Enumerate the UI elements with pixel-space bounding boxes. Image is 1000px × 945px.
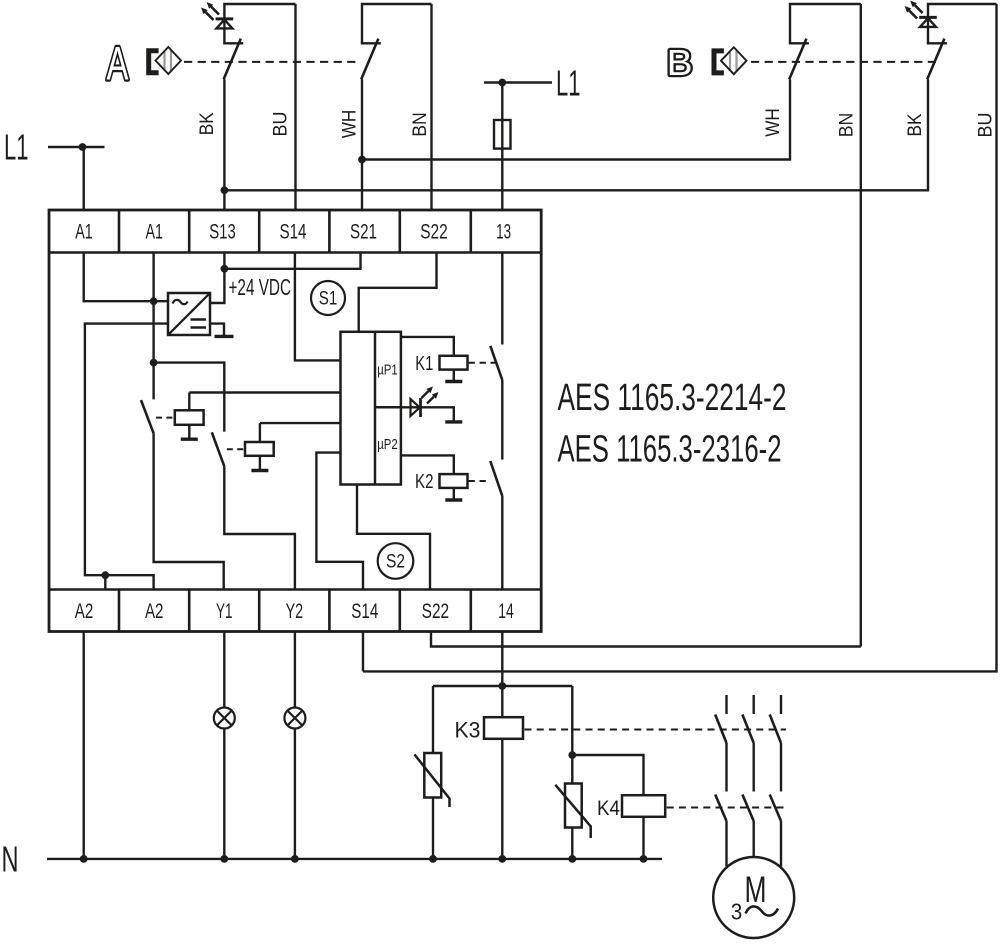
wire: S14 to microprocessor — [295, 253, 341, 361]
wire: coil 2 to microprocessor — [260, 422, 341, 424]
junction: L1 left — [79, 143, 87, 151]
wire: K4 coil to N — [642, 817, 644, 859]
wire: terminal 13 to contact K1 — [501, 253, 503, 345]
svg-text:S21: S21 — [350, 220, 377, 244]
svg-text:S1: S1 — [319, 288, 338, 310]
svg-text:S2: S2 — [386, 551, 405, 573]
svg-text:K1: K1 — [415, 353, 433, 375]
contactor K3 pole 1 — [715, 695, 726, 792]
wire: sensor A WH leg and top run to BN — [362, 4, 432, 43]
indicator lamp H2 — [284, 708, 305, 729]
motor M1 circle — [713, 857, 794, 938]
sensor B icon bracket — [714, 51, 724, 73]
sensor B icon diamond — [721, 47, 747, 74]
contactor K3 pole 2 — [742, 695, 753, 792]
wire: K4 branch down — [571, 686, 573, 755]
svg-text:BK: BK — [905, 113, 926, 136]
svg-text:BK: BK — [197, 112, 218, 135]
svg-text:B: B — [667, 42, 693, 83]
wire: Y1 down to N — [223, 632, 225, 859]
dashed actuation line sensor A — [184, 61, 358, 63]
wire: +24V rail to S21 — [224, 253, 360, 269]
internal relay coil 2 — [245, 423, 274, 470]
dashed link K1 coil-contact — [469, 362, 498, 364]
wire: L1 rail top left — [48, 146, 105, 148]
wire: sensor A BK leg and top run to BU — [224, 4, 295, 43]
junction: N at Y2 lamp — [291, 855, 299, 863]
terminal row bottom top edge — [49, 588, 541, 591]
wire: BK below contact down to terminal S13 — [223, 79, 225, 210]
contactor K4 pole 3 — [770, 795, 781, 867]
svg-text:Y1: Y1 — [216, 599, 233, 623]
junction: WH-A / WH-B node — [358, 156, 366, 164]
circle S2 — [378, 543, 414, 579]
sensor A icon bracket — [149, 51, 159, 73]
svg-text:WH: WH — [340, 110, 361, 139]
wire: uP1 to relay coil K1 — [401, 337, 454, 356]
svg-text:K3: K3 — [455, 718, 481, 743]
junction: 14 / K3 node — [498, 682, 506, 690]
power supply unit (AC/DC) — [168, 293, 210, 335]
svg-text:Y2: Y2 — [286, 599, 304, 623]
svg-text:K4: K4 — [597, 797, 620, 820]
svg-text:BU: BU — [271, 112, 292, 137]
wire: uP2 to relay coil K2 — [401, 455, 454, 474]
junction: K4 branch node — [568, 751, 576, 759]
junction: A1 bridge — [150, 297, 158, 305]
status LED D1 — [411, 387, 439, 418]
contactor coil K4 — [622, 795, 665, 817]
svg-text:A2: A2 — [75, 599, 94, 623]
svg-text:13: 13 — [496, 220, 511, 244]
wire: microprocessor to bottom S14 — [316, 453, 363, 590]
svg-text:L1: L1 — [4, 127, 29, 168]
motor wave symbol — [746, 906, 779, 915]
contact: sensor A BK (NC) — [223, 39, 243, 80]
wire: node to K4 coil — [572, 755, 643, 795]
dashed link contact1-coil1 — [156, 417, 174, 419]
terminal row bottom dividers — [119, 590, 471, 632]
junction: N at varistor R2 — [568, 855, 576, 863]
wire: WH-B down and across to WH junction — [362, 79, 790, 159]
svg-text:A: A — [107, 37, 129, 90]
junction: N at K4 coil — [640, 855, 648, 863]
svg-text:14: 14 — [498, 599, 514, 623]
wire: uP LED branch — [401, 407, 454, 422]
PSU ground symbol — [210, 324, 234, 337]
wire: sensor B BK leg and top run to BU — [928, 4, 997, 43]
wire: sensor B WH leg and top run to BN — [790, 4, 861, 43]
wire: BN sensor A down to terminal S22 — [430, 4, 432, 210]
wire: node to K3 coil — [501, 686, 503, 717]
wire: S13 stub — [223, 253, 225, 269]
svg-text:µP2: µP2 — [377, 436, 398, 453]
internal contact 1 blade — [141, 400, 154, 433]
dashed link contact2-coil2 — [227, 448, 245, 450]
wire: BN sensor B down to bottom S22 rail — [860, 4, 862, 647]
wire: WH below contact down to terminal S21 — [361, 79, 363, 210]
svg-text:A2: A2 — [145, 599, 164, 623]
relay coil K1 — [440, 356, 468, 382]
wire: A2 down to N — [82, 632, 84, 859]
svg-text:S13: S13 — [209, 220, 236, 244]
fuse F1 — [494, 120, 511, 149]
svg-text:K2: K2 — [415, 471, 434, 493]
terminal row top bottom edge — [49, 251, 541, 254]
wire: contact 2 to terminal Y2 — [224, 466, 295, 589]
wire: BK-B down and across to BK junction — [224, 79, 928, 190]
contactor K4 pole 2 — [742, 795, 753, 858]
microprocessor box U1 — [341, 332, 401, 485]
wire: bottom S22 to BN-B — [431, 632, 861, 647]
svg-text:A1: A1 — [75, 220, 93, 244]
circle S1 — [311, 281, 345, 315]
wire: A2 stub — [104, 575, 106, 589]
svg-text:S22: S22 — [420, 220, 448, 244]
wire: L1 rail middle — [484, 81, 552, 83]
contactor K3 pole 3 — [770, 695, 781, 792]
svg-text:BN: BN — [836, 113, 857, 138]
contactor K4 pole 1 — [715, 795, 726, 867]
svg-text:BU: BU — [976, 113, 997, 138]
wire: BU sensor B down and across to bottom S14 — [363, 4, 997, 671]
svg-text:AES 1165.3-2214-2: AES 1165.3-2214-2 — [558, 377, 787, 419]
internal contact 2 blade — [212, 432, 225, 466]
wire: BU sensor A down to terminal S14 — [294, 4, 296, 210]
LED sensor A — [201, 2, 233, 28]
junction: L1 middle — [498, 79, 506, 87]
contact: sensor A WH (NC) — [361, 39, 381, 80]
wire: contact 1 to terminal Y1 — [154, 433, 224, 589]
svg-text:+24 VDC: +24 VDC — [229, 274, 292, 300]
svg-text:A1: A1 — [145, 220, 163, 244]
svg-text:µP1: µP1 — [377, 362, 398, 379]
svg-text:N: N — [2, 838, 19, 879]
terminal row top dividers — [119, 210, 471, 253]
N rail — [47, 858, 662, 860]
wire: A1#2 down to internal contact 1 — [152, 253, 154, 400]
wire: PSU output up to S13 node — [210, 269, 224, 303]
junction: N at Y1 lamp — [220, 855, 228, 863]
wire: Y2 down to N — [294, 632, 296, 859]
internal relay coil 1 — [175, 393, 204, 440]
svg-text:3: 3 — [731, 899, 743, 925]
wire: microprocessor bottom to bottom S22 — [357, 485, 430, 590]
dashed link K2 coil-contact — [469, 480, 491, 482]
indicator lamp H1 — [214, 708, 235, 729]
relay coil K2 — [440, 474, 468, 500]
LED sensor B — [905, 1, 937, 27]
wire: K3 node rail — [433, 685, 572, 687]
contactor coil K3 — [484, 717, 523, 739]
wire: L1 through fuse down to terminal 13 — [501, 83, 503, 211]
varistor R1 — [415, 686, 450, 859]
dashed actuation line sensor B — [751, 61, 936, 63]
svg-text:S14: S14 — [280, 220, 307, 244]
wire: branch to internal contact 2 — [154, 363, 225, 432]
svg-text:L1: L1 — [556, 62, 581, 103]
safety relay module outline — [49, 210, 541, 632]
wire: K3 coil to N — [501, 739, 503, 859]
wire: contact K2 to terminal 14 — [501, 496, 503, 590]
wire: coil 1 to microprocessor — [189, 391, 340, 393]
wire: contact K1 to contact K2 — [501, 380, 503, 460]
wire: S22 to microprocessor top — [359, 253, 437, 332]
svg-text:S14: S14 — [351, 599, 378, 623]
junction: internal branch node — [150, 359, 158, 367]
wire: A1 to PSU input — [84, 253, 168, 302]
contact K1 blade — [490, 346, 502, 380]
wire: L1 down to terminal A1 — [82, 147, 84, 210]
junction: A2 node — [101, 571, 109, 579]
contact K2 blade — [490, 461, 502, 496]
common bar under LED — [445, 420, 462, 423]
dashed link K4 to contactor poles — [667, 807, 786, 809]
wire: PSU return down to A2 terminals — [85, 324, 168, 590]
svg-text:BN: BN — [410, 112, 431, 137]
junction: N at A2 — [80, 855, 88, 863]
sensor A icon diamond — [156, 47, 182, 74]
svg-text:AES 1165.3-2316-2: AES 1165.3-2316-2 — [558, 429, 782, 471]
junction: S13 +24V node — [221, 265, 229, 273]
junction: N at varistor R1 — [429, 855, 437, 863]
junction: N at K3 coil — [498, 855, 506, 863]
svg-text:S22: S22 — [422, 599, 450, 623]
svg-text:WH: WH — [763, 108, 784, 137]
dashed link K3 to contactor poles — [525, 729, 787, 731]
wire: bottom S14 stub down — [362, 632, 364, 672]
contact: sensor B WH (NC) — [789, 39, 809, 80]
svg-text:M: M — [745, 869, 767, 910]
wire: terminal 14 down — [501, 632, 503, 687]
varistor R2 — [555, 755, 590, 859]
junction: BK-A / BK-B node — [221, 186, 229, 194]
contact: sensor B BK (NC) — [927, 39, 947, 80]
